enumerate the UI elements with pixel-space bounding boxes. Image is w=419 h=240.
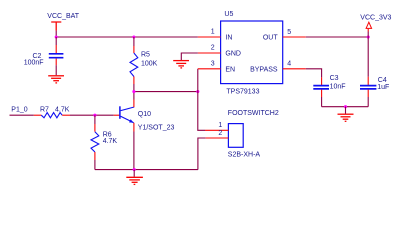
wire VCC_BAT stem: [55, 31, 57, 37]
node junction VCC_3V3: [367, 35, 370, 38]
wire caps bottom: [322, 106, 369, 108]
svg-text:1: 1: [218, 122, 222, 129]
svg-text:FOOTSWITCH2: FOOTSWITCH2: [228, 110, 279, 117]
wire collector to node: [133, 92, 135, 100]
capacitor C4: [360, 37, 389, 107]
svg-text:IN: IN: [225, 34, 232, 41]
svg-text:4.7K: 4.7K: [55, 107, 70, 114]
wire VCC top rail: [56, 36, 198, 38]
svg-text:Y1/SOT_23: Y1/SOT_23: [138, 124, 175, 131]
svg-text:1uF: 1uF: [377, 84, 389, 91]
svg-text:GND: GND: [225, 51, 241, 58]
node junction collector: [132, 90, 135, 93]
svg-text:S2B-XH-A: S2B-XH-A: [228, 151, 261, 158]
ground below C2: [48, 76, 64, 83]
wire bottom rail: [95, 169, 198, 171]
ground at C3 C4: [338, 107, 354, 122]
svg-text:5: 5: [287, 29, 291, 36]
capacitor C3: [313, 75, 345, 107]
svg-text:U5: U5: [224, 11, 233, 18]
svg-text:100nF: 100nF: [24, 60, 44, 67]
wire BYPASS net: [306, 69, 322, 78]
svg-text:1: 1: [211, 28, 215, 35]
power symbol VCC_3V3: [360, 14, 391, 37]
svg-text:TPS79133: TPS79133: [226, 88, 259, 95]
capacitor C2: [24, 37, 64, 75]
ground at U5 GND: [173, 61, 189, 68]
op-amp U5 TPS79133 box: [221, 11, 283, 96]
svg-text:P1_0: P1_0: [11, 107, 27, 114]
svg-text:VCC_BAT: VCC_BAT: [47, 13, 79, 20]
svg-text:2: 2: [211, 45, 215, 52]
wire R7 to Q10 base: [70, 114, 114, 116]
svg-text:10nF: 10nF: [330, 83, 346, 90]
wire emitter down: [133, 132, 135, 170]
connector FOOTSWITCH2: [228, 110, 279, 158]
ground bottom: [126, 170, 143, 185]
svg-text:VCC_3V3: VCC_3V3: [360, 14, 391, 21]
node junction bottom: [133, 168, 136, 171]
svg-text:Q10: Q10: [138, 111, 151, 118]
svg-text:C4: C4: [378, 77, 387, 84]
transistor Q10: [114, 100, 175, 132]
resistor R7: [34, 107, 70, 118]
node junction R5 top: [132, 35, 135, 38]
resistor R5: [130, 37, 158, 92]
resistor R6: [91, 115, 117, 169]
wire EN vertical: [198, 69, 205, 131]
node junction VCC_BAT: [55, 35, 58, 38]
power symbol VCC_BAT: [47, 13, 79, 30]
svg-text:2: 2: [218, 130, 222, 137]
wire GND pin to ground: [181, 53, 198, 60]
svg-text:3: 3: [211, 60, 215, 67]
svg-text:BYPASS: BYPASS: [250, 66, 278, 73]
node junction caps ground: [344, 105, 347, 108]
svg-text:R5: R5: [141, 52, 150, 59]
svg-text:OUT: OUT: [263, 34, 279, 41]
node junction R6 top: [93, 114, 96, 117]
svg-text:4.7K: 4.7K: [103, 138, 118, 145]
wire base-node horizontal P1_0 to Q10: [10, 114, 34, 116]
svg-text:C3: C3: [330, 75, 339, 82]
svg-text:4: 4: [287, 60, 291, 67]
svg-text:EN: EN: [225, 66, 235, 73]
node junction EN line: [196, 90, 199, 93]
wire collector node to EN vertical: [134, 91, 198, 93]
wire footswitch pin2 to bottom rail: [198, 138, 206, 170]
wire OUT net: [306, 36, 368, 38]
svg-text:100K: 100K: [141, 61, 158, 68]
